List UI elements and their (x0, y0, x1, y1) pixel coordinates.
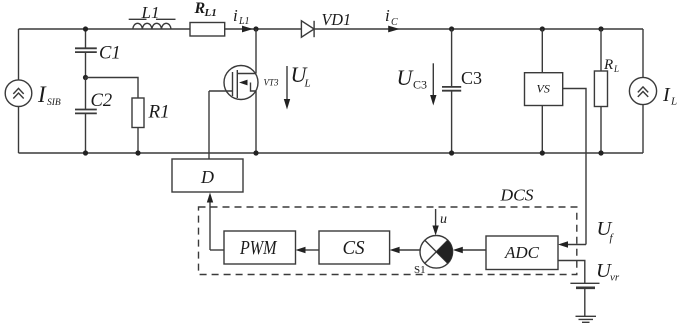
svg-text:I: I (37, 82, 47, 107)
label ADC (504, 243, 540, 262)
node RL top (598, 26, 603, 31)
node source on bus (253, 150, 258, 155)
wire gate to D block (208, 91, 210, 159)
svg-text:C3: C3 (461, 68, 482, 88)
label RL (603, 57, 619, 74)
svg-text:vr: vr (610, 272, 620, 284)
label UL (291, 62, 311, 90)
wire VS output to Uf line (563, 89, 586, 245)
label PWM (239, 237, 277, 259)
label C2 (91, 91, 113, 111)
label VD1 (322, 10, 352, 29)
svg-text:C2: C2 (91, 91, 113, 111)
svg-text:u: u (440, 212, 447, 227)
svg-text:i: i (385, 6, 390, 25)
wire right branch upper (642, 29, 644, 77)
current arrow iL1 (242, 26, 253, 33)
label L1 (141, 3, 160, 22)
label u (440, 212, 447, 227)
wire source lead to bus (255, 91, 257, 153)
driver block D (172, 159, 243, 192)
voltage arrow UL (284, 66, 290, 110)
arrow ADC to mixer (453, 247, 486, 253)
label D (200, 167, 214, 187)
wire C1 top lead (85, 29, 87, 48)
arrow CS to PWM (296, 247, 320, 253)
voltage arrow UC3 (430, 63, 436, 105)
node RL bottom (598, 150, 603, 155)
wire right branch lower (642, 105, 644, 153)
block CS (319, 231, 390, 264)
svg-text:R: R (603, 57, 613, 73)
svg-text:L1: L1 (141, 3, 160, 22)
svg-text:S1: S1 (414, 264, 426, 276)
svg-text:L1: L1 (238, 16, 250, 27)
node mid junction (83, 75, 88, 80)
arrow mixer to CS (390, 247, 420, 253)
mixer S1 (420, 236, 453, 269)
svg-text:SIB: SIB (47, 98, 61, 108)
label VS (537, 82, 550, 96)
svg-text:ADC: ADC (504, 243, 540, 262)
wire bottom bus (19, 152, 644, 154)
resistor R1 (132, 98, 144, 128)
label UC3 (397, 65, 428, 92)
label I_SIB (37, 82, 61, 108)
node drain junction (253, 26, 258, 31)
node C3 top (449, 26, 454, 31)
label C1 (99, 44, 121, 64)
wire PWM output (210, 249, 224, 251)
resistor RL (594, 71, 607, 107)
node C2 bottom (83, 150, 88, 155)
svg-text:VD1: VD1 (322, 10, 352, 29)
svg-text:i: i (233, 6, 238, 25)
svg-text:C: C (391, 17, 398, 28)
label S1 (414, 264, 426, 276)
node R1 bottom (135, 150, 140, 155)
current source I_SIB (5, 80, 32, 107)
ground (576, 316, 597, 322)
arrow u input (432, 209, 438, 236)
wire C2 leads (85, 77, 87, 153)
svg-text:U: U (397, 65, 415, 90)
label DCS (499, 186, 534, 205)
sensor block VS (525, 73, 563, 106)
battery Uvr (570, 283, 599, 288)
wire left branch upper (18, 29, 20, 80)
label R1 (148, 102, 170, 123)
block PWM (224, 231, 296, 264)
arrow Uf into ADC (558, 241, 586, 247)
block ADC (486, 236, 558, 270)
svg-text:VT3: VT3 (264, 78, 280, 88)
node top of C1 branch (83, 26, 88, 31)
svg-text:PWM: PWM (239, 237, 277, 259)
dashed box DCS (199, 207, 577, 275)
label Uf (597, 218, 615, 244)
svg-text:I: I (662, 84, 671, 106)
svg-text:f: f (610, 232, 615, 244)
svg-text:L: L (613, 64, 619, 74)
resistor RL1 (190, 23, 225, 37)
svg-text:CS: CS (343, 237, 365, 259)
wire drain lead (255, 29, 257, 74)
wire mid node to R1 (86, 78, 139, 99)
label iL1 (233, 6, 250, 27)
svg-text:L1: L1 (204, 7, 217, 19)
capacitor C1 (75, 48, 97, 52)
wire battery to ground (584, 288, 586, 316)
wire VS leads (541, 29, 543, 153)
label Uvr (596, 260, 620, 284)
node VS top (540, 26, 545, 31)
arrow PWM to D (207, 193, 213, 251)
svg-text:D: D (200, 167, 214, 187)
core bars of L1 (129, 18, 176, 20)
svg-text:C3: C3 (413, 78, 427, 92)
svg-text:R1: R1 (148, 102, 170, 123)
svg-text:L: L (670, 96, 677, 108)
wire RL leads (600, 29, 602, 153)
svg-text:C1: C1 (99, 44, 121, 64)
node C3 bottom (449, 150, 454, 155)
capacitor C2 (75, 110, 97, 114)
capacitor C3 (442, 29, 461, 153)
label RL1 (194, 0, 217, 19)
current arrow iC (388, 26, 400, 33)
node VS bottom (540, 150, 545, 155)
label VT3 (264, 78, 280, 88)
wire C1 to mid node (85, 53, 87, 78)
svg-text:L: L (304, 78, 311, 90)
wire left branch lower (18, 106, 20, 153)
svg-text:VS: VS (537, 82, 550, 96)
label C3 (461, 68, 482, 88)
diode VD1 (301, 21, 314, 37)
current source IL (629, 77, 656, 104)
label iC (385, 6, 398, 28)
wire R1 bottom lead (137, 128, 139, 154)
transistor VT3 (209, 66, 258, 100)
label CS (343, 237, 365, 259)
label IL (662, 84, 677, 108)
inductor L1 (133, 23, 171, 29)
wire Uvr (558, 261, 585, 284)
svg-text:DCS: DCS (499, 186, 534, 205)
wire top bus (19, 28, 644, 30)
